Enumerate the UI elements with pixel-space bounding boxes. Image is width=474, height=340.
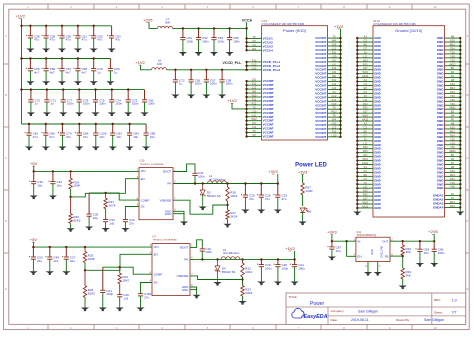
svg-text:CYCLONE10LP 10K 40K 55K F484: CYCLONE10LP 10K 40K 55K F484	[373, 22, 416, 26]
pin GND (left)	[357, 156, 373, 158]
pin GND (left)	[357, 104, 373, 106]
svg-text:M12: M12	[450, 129, 456, 133]
svg-text:+5V: +5V	[30, 237, 38, 242]
svg-text:1K78: 1K78	[108, 203, 115, 207]
pin VCCINT (right)	[328, 120, 341, 122]
capacitor C68 10u	[419, 241, 421, 249]
svg-text:Sheet:: Sheet:	[434, 310, 443, 314]
svg-text:G12: G12	[332, 94, 337, 98]
wire VCCINT left vertical bus	[246, 81, 248, 136]
ground (U11 GND_TAB)	[374, 272, 382, 276]
svg-text:W4: W4	[332, 118, 336, 122]
pin GND (right)	[445, 65, 461, 67]
svg-text:M12: M12	[450, 200, 456, 204]
svg-text:A1: A1	[364, 122, 368, 126]
capacitor C100 10n	[95, 124, 97, 133]
pin GND (right)	[445, 148, 461, 150]
pin VCCA4	[247, 49, 262, 51]
capacitor C26 100u	[260, 259, 262, 264]
svg-text:30R: 30R	[165, 21, 170, 25]
wire GND pins (reg2)	[190, 287, 197, 295]
ic U10 TPS54321_POWERPAD	[139, 168, 173, 220]
svg-text:Y20: Y20	[450, 102, 455, 106]
svg-text:E5: E5	[364, 43, 368, 47]
svg-text:E: E	[5, 287, 7, 291]
capacitor C78 100n	[78, 90, 80, 100]
svg-text:100n: 100n	[198, 175, 205, 179]
pin VCCINT (right)	[328, 61, 341, 63]
pin GND (right)	[445, 164, 461, 166]
capacitor C56 100n	[190, 70, 192, 80]
title block frame	[286, 293, 466, 325]
wire GND pins (reg1)	[173, 211, 184, 221]
capacitor C58 100n	[221, 70, 223, 80]
svg-text:1n5: 1n5	[123, 297, 128, 301]
svg-text:G7: G7	[363, 46, 367, 50]
svg-text:36K: 36K	[406, 274, 411, 278]
svg-text:A1: A1	[364, 78, 368, 82]
capacitor C24 100u	[294, 259, 296, 264]
pin GND (left)	[357, 187, 373, 189]
svg-text:100u: 100u	[282, 266, 289, 270]
wire VIN bus (reg2)	[33, 246, 152, 248]
svg-text:2019-08-11: 2019-08-11	[351, 318, 369, 322]
capacitor C69 1u	[109, 59, 111, 69]
svg-text:160K: 160K	[88, 257, 95, 261]
capacitor C80 47u	[45, 124, 47, 133]
svg-text:W19: W19	[363, 114, 369, 118]
capacitor C87 10u	[331, 241, 333, 247]
pin VCCINT (left)	[247, 88, 262, 90]
svg-text:L11: L11	[363, 141, 368, 145]
pin GND (left)	[357, 160, 373, 162]
pin VCCINT (right)	[328, 108, 341, 110]
svg-text:R15: R15	[450, 204, 455, 208]
svg-text:P11: P11	[332, 50, 337, 54]
svg-text:B2: B2	[451, 66, 455, 70]
svg-text:AA21: AA21	[362, 161, 369, 165]
pin VCCINT (left)	[247, 124, 262, 126]
svg-text:160K: 160K	[73, 184, 80, 188]
pin GND (right)	[445, 45, 461, 47]
pin GND (right)	[445, 116, 461, 118]
inductor L6 10R	[152, 68, 167, 70]
svg-text:10u: 10u	[424, 251, 429, 255]
svg-text:L11: L11	[363, 98, 368, 102]
capacitor C83 10n	[112, 124, 114, 133]
pin GND (right)	[445, 112, 461, 114]
svg-text:47u: 47u	[83, 135, 88, 139]
capacitor C25 100u	[277, 259, 279, 264]
wire bus row3	[22, 89, 145, 91]
svg-text:K10: K10	[450, 125, 455, 129]
wire +1V2 flag stub	[294, 251, 296, 260]
svg-text:N10: N10	[252, 94, 257, 98]
pin VCCINT (right)	[328, 124, 341, 126]
svg-text:+5V: +5V	[30, 161, 38, 166]
wire PH output rail (reg2, +1V2)	[190, 258, 295, 260]
capacitor C20 1n5	[119, 284, 121, 295]
wire VCCD_PLL vertical bus	[246, 62, 248, 70]
svg-text:F11: F11	[252, 58, 257, 62]
svg-text:GNDA4: GNDA4	[433, 205, 444, 209]
diode D4 550HV 5A	[217, 259, 219, 266]
capacitor C61 47u	[77, 26, 79, 36]
pin VCCA1	[247, 37, 262, 39]
svg-text:H8: H8	[451, 78, 455, 82]
svg-text:VCCINT: VCCINT	[263, 135, 274, 139]
svg-text:22u: 22u	[70, 259, 75, 263]
wire +3V3 flag stub	[277, 174, 279, 184]
wire VCCINT right vertical bus	[340, 29, 342, 137]
svg-text:PH: PH	[184, 258, 188, 262]
pin GND (left)	[357, 57, 373, 59]
capacitor C21 100p	[102, 267, 104, 290]
svg-text:VSENSE: VSENSE	[177, 274, 189, 278]
wire R25 to divider junction	[84, 263, 86, 271]
svg-text:VCCA: VCCA	[242, 19, 253, 23]
svg-text:C3: C3	[364, 169, 368, 173]
svg-text:1u: 1u	[51, 102, 55, 106]
wire VCCA bus	[173, 27, 247, 29]
wire FB (U11)	[390, 255, 403, 257]
svg-text:W4: W4	[252, 47, 256, 51]
svg-text:H8: H8	[451, 35, 455, 39]
pin VCCINT (left)	[247, 104, 262, 106]
resistor R22 10K2	[241, 263, 244, 277]
svg-text:TPS54321_POWERPAD: TPS54321_POWERPAD	[153, 239, 178, 242]
svg-text:R12: R12	[252, 101, 257, 105]
svg-text:SS: SS	[141, 205, 145, 209]
svg-text:J10: J10	[252, 78, 257, 82]
wire BOOT jog (reg1)	[173, 164, 195, 172]
svg-text:GND: GND	[182, 288, 190, 292]
svg-text:D: D	[5, 219, 7, 223]
pin GNDA3	[445, 203, 461, 205]
resistor R32 36K	[401, 245, 404, 255]
pin GND (U11 bottom)	[367, 262, 369, 273]
svg-text:47u: 47u	[249, 197, 254, 201]
svg-text:VCCINT: VCCINT	[315, 135, 326, 139]
svg-text:82K5: 82K5	[88, 291, 95, 295]
pin VCCINT (right)	[328, 81, 341, 83]
svg-text:22u: 22u	[53, 259, 58, 263]
pin GND (right)	[445, 104, 461, 106]
capacitor C67 4u7	[61, 59, 63, 69]
svg-text:+3V3: +3V3	[268, 169, 278, 174]
svg-text:100n: 100n	[233, 39, 240, 43]
svg-text:Date:: Date:	[331, 318, 338, 322]
junction R29/R30	[69, 196, 71, 198]
svg-text:Power: Power	[310, 301, 325, 307]
svg-text:D4: D4	[451, 114, 455, 118]
junction R25/R26	[84, 269, 86, 271]
capacitor C32 10u	[52, 171, 54, 181]
pin GND (right)	[445, 49, 461, 51]
svg-text:10: 10	[433, 5, 437, 9]
svg-text:VCCD_PLL3: VCCD_PLL3	[263, 68, 281, 72]
svg-text:550HV 5A: 550HV 5A	[222, 270, 236, 274]
svg-text:P14: P14	[450, 90, 455, 94]
svg-text:100n: 100n	[99, 102, 106, 106]
wire R30 to ground	[70, 223, 72, 228]
pin GND (left)	[357, 112, 373, 114]
pin VCCINT (left)	[247, 92, 262, 94]
pin GND (left)	[357, 49, 373, 51]
svg-text:A: A	[467, 34, 469, 38]
svg-text:GND: GND	[165, 212, 173, 216]
pin GND (left)	[357, 195, 373, 197]
resistor R27 3K24	[226, 210, 229, 220]
svg-text:D6: D6	[308, 210, 312, 214]
svg-text:T16: T16	[450, 137, 455, 141]
svg-text:B2: B2	[451, 153, 455, 157]
svg-text:VCCA4: VCCA4	[263, 48, 274, 52]
svg-text:4u7: 4u7	[34, 71, 39, 75]
svg-text:EN: EN	[358, 254, 362, 258]
pin VCCD_PLL3	[247, 69, 262, 71]
pin GND_TAB (U11 bottom)	[377, 262, 379, 273]
pin GND (right)	[445, 85, 461, 87]
svg-text:AA21: AA21	[362, 74, 369, 78]
svg-text:100n: 100n	[187, 39, 194, 43]
pin VCCINT (left)	[247, 136, 262, 138]
svg-text:VIN: VIN	[141, 169, 146, 173]
pin GND (left)	[357, 81, 373, 83]
svg-text:1u: 1u	[35, 102, 39, 106]
svg-text:82K5: 82K5	[73, 218, 80, 222]
svg-text:Company:: Company:	[331, 309, 345, 313]
svg-text:U5: U5	[332, 62, 336, 66]
svg-text:U10: U10	[332, 133, 337, 137]
pin GND (left)	[357, 148, 373, 150]
svg-text:100n: 100n	[115, 102, 122, 106]
pin VCCINT (left)	[247, 100, 262, 102]
pin GND (left)	[357, 140, 373, 142]
wire D6 to ground	[302, 213, 304, 222]
pin GND (left)	[357, 167, 373, 169]
pin VCCINT (right)	[328, 92, 341, 94]
svg-text:E5: E5	[364, 86, 368, 90]
svg-text:K9: K9	[332, 58, 336, 62]
svg-text:47u: 47u	[66, 135, 71, 139]
led D6	[300, 208, 305, 213]
capacitor C85 10n	[145, 124, 147, 133]
svg-text:COMP: COMP	[154, 272, 163, 276]
svg-text:20K5: 20K5	[245, 291, 252, 295]
svg-text:47u: 47u	[265, 197, 270, 201]
border tick marks top/bottom	[47, 4, 49, 9]
ic U7 TPS54321_POWERPAD	[152, 244, 190, 296]
svg-text:Sam Gilligan: Sam Gilligan	[424, 318, 444, 322]
wire R57 to D6	[302, 195, 304, 206]
svg-text:EasyEDA: EasyEDA	[304, 314, 328, 320]
pin GND (right)	[445, 37, 461, 39]
ground (R33)	[399, 286, 407, 290]
ground (U1.10 left bus)	[353, 212, 361, 216]
svg-text:K11: K11	[332, 98, 337, 102]
svg-text:W19: W19	[363, 201, 369, 205]
capacitor C79 1u	[93, 59, 95, 69]
capacitor C55 100n	[229, 28, 231, 37]
wire +1V2 serpentine vertical	[21, 19, 23, 124]
pin GND (left)	[357, 108, 373, 110]
capacitor C71 1u	[46, 90, 48, 100]
pin GND (right)	[445, 136, 461, 138]
svg-text:+1V2: +1V2	[227, 98, 237, 103]
pin GND (left)	[357, 61, 373, 63]
wire EN staircase (reg2)	[85, 254, 152, 270]
wire COMP staircase (reg1)	[89, 193, 139, 200]
svg-text:10n: 10n	[116, 135, 121, 139]
pin GND (right)	[445, 73, 461, 75]
svg-text:Sam Gilligan: Sam Gilligan	[358, 309, 378, 313]
svg-text:G12: G12	[252, 62, 257, 66]
junction row3 left	[20, 88, 22, 90]
resistor R31 1K78	[104, 198, 107, 209]
pin VCCA3	[247, 45, 262, 47]
pin GND (left)	[357, 96, 373, 98]
svg-text:AB22: AB22	[449, 106, 456, 110]
pin VCCINT (right)	[328, 116, 341, 118]
capacitor C62 47u	[93, 26, 95, 36]
svg-text:Y20: Y20	[450, 145, 455, 149]
pin GND (right)	[445, 156, 461, 158]
svg-text:N13: N13	[363, 102, 368, 106]
resistor R29 160K	[69, 178, 72, 189]
svg-text:U5: U5	[252, 39, 256, 43]
pin GND (left)	[357, 124, 373, 126]
capacitor C19 100n	[201, 247, 203, 249]
capacitor C49 22u	[49, 247, 51, 257]
svg-text:P14: P14	[450, 133, 455, 137]
svg-text:PH: PH	[167, 182, 171, 186]
svg-text:V4: V4	[332, 90, 336, 94]
svg-text:100n: 100n	[83, 102, 90, 106]
svg-text:L10: L10	[332, 86, 337, 90]
pin GND (left)	[357, 132, 373, 134]
svg-text:47u: 47u	[82, 38, 87, 42]
svg-text:L12: L12	[332, 125, 337, 129]
pin VCCINT (right)	[328, 41, 341, 43]
capacitor C86 47u	[78, 124, 80, 133]
svg-text:L12: L12	[332, 46, 337, 50]
svg-text:+2V5: +2V5	[428, 229, 438, 234]
capacitor C61 100n	[182, 28, 184, 37]
wire +3V3 to R57	[302, 174, 304, 183]
pin VCCD_PLL2	[247, 65, 262, 67]
wire +3V3 to U11 IN	[331, 235, 333, 242]
pin GND (left)	[357, 152, 373, 154]
capacitor C105 27n	[140, 293, 142, 295]
inductor L4 4u7 60mohm	[208, 181, 227, 184]
wire R27 to ground	[227, 219, 229, 223]
svg-text:1n5: 1n5	[109, 221, 114, 225]
pin VCCINT (right)	[328, 53, 341, 55]
pin GND (right)	[445, 57, 461, 59]
svg-text:100n: 100n	[202, 39, 209, 43]
svg-text:27n: 27n	[144, 296, 149, 300]
pin VCCINT (right)	[328, 104, 341, 106]
wire VIN bus (reg1)	[34, 170, 139, 172]
pin GND (left)	[357, 41, 373, 43]
capacitor C31 100n	[194, 171, 196, 173]
svg-text:R12: R12	[332, 78, 337, 82]
svg-text:1u: 1u	[114, 71, 118, 75]
pin GND (right)	[445, 108, 461, 110]
svg-text:AB22: AB22	[449, 62, 456, 66]
pin GND (right)	[445, 120, 461, 122]
resistor R33 36K	[401, 268, 404, 279]
svg-text:EN: EN	[141, 177, 145, 181]
ic U1.10 CYCLONE10LP Ground (10/10)	[373, 26, 445, 217]
svg-text:10K2: 10K2	[230, 194, 237, 198]
capacitor C84 10n	[129, 124, 131, 133]
pin GND (right)	[445, 100, 461, 102]
svg-text:U17: U17	[363, 110, 368, 114]
pin GND (left)	[357, 191, 373, 193]
svg-text:U17: U17	[363, 66, 368, 70]
svg-text:V18: V18	[450, 185, 455, 189]
svg-text:47u: 47u	[49, 135, 54, 139]
svg-text:N13: N13	[363, 189, 368, 193]
svg-text:V11: V11	[332, 82, 337, 86]
pin GND (left)	[357, 128, 373, 130]
pin VCCINT (right)	[328, 37, 341, 39]
svg-text:10p: 10p	[93, 216, 98, 220]
capacitor C73 100n	[127, 90, 129, 100]
svg-text:GND_TAB: GND_TAB	[380, 246, 384, 258]
pin VCCINT (left)	[247, 108, 262, 110]
wire R28 to R27	[227, 201, 229, 210]
pin VCCINT (right)	[328, 45, 341, 47]
svg-text:R15: R15	[363, 106, 368, 110]
EasyEDA logo	[292, 308, 328, 320]
pin GND (left)	[357, 65, 373, 67]
svg-text:VIN: VIN	[154, 245, 159, 249]
svg-text:E5: E5	[364, 173, 368, 177]
capacitor C81 47u	[28, 124, 30, 133]
pin VCCD_PLL1	[247, 61, 262, 63]
capacitor C77 100n	[62, 90, 64, 100]
pin VCCINT (right)	[328, 85, 341, 87]
svg-text:10R: 10R	[157, 62, 162, 66]
svg-text:U10: U10	[252, 109, 257, 113]
svg-text:550HV 5A: 550HV 5A	[207, 194, 221, 198]
svg-text:10u: 10u	[336, 249, 341, 253]
pin VCCINT (right)	[328, 128, 341, 130]
resistor R24 28K7	[118, 273, 121, 284]
wire +5V to VIN bus (reg2)	[32, 242, 34, 247]
pin GND (left)	[357, 207, 373, 209]
wire R23 to ground	[242, 296, 244, 301]
svg-text:BOOT: BOOT	[180, 246, 188, 250]
capacitor C75 100n	[95, 90, 97, 100]
svg-text:100n: 100n	[438, 251, 445, 255]
capacitor C63 47u	[111, 26, 113, 36]
capacitor C38 47u	[29, 26, 31, 36]
svg-text:N13: N13	[363, 58, 368, 62]
svg-text:GND: GND	[437, 186, 445, 190]
svg-text:B: B	[467, 93, 469, 97]
pin VCCINT (right)	[328, 132, 341, 134]
pin GND (right)	[445, 175, 461, 177]
svg-text:K11: K11	[252, 82, 257, 86]
svg-text:+1V2: +1V2	[285, 246, 295, 251]
svg-text:120R: 120R	[305, 189, 313, 193]
svg-text:TPS54321_POWERPAD: TPS54321_POWERPAD	[140, 163, 165, 166]
svg-text:A: A	[5, 34, 7, 38]
